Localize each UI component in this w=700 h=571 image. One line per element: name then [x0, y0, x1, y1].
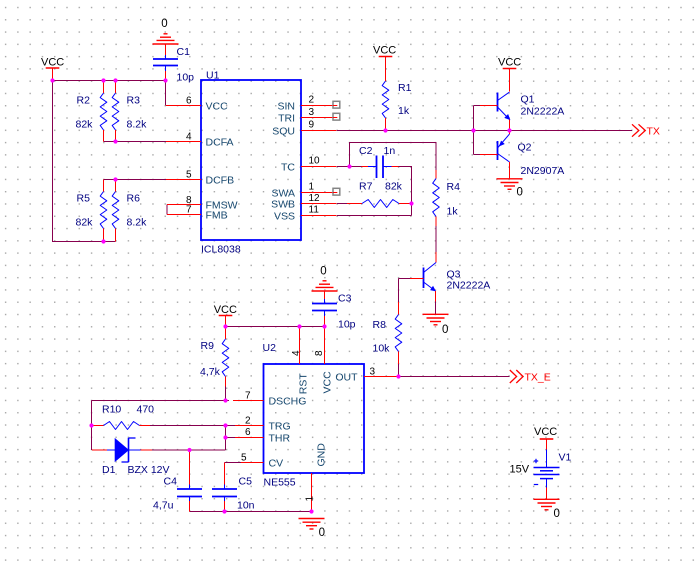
svg-text:1k: 1k: [447, 206, 459, 218]
svg-text:4,7u: 4,7u: [153, 500, 174, 512]
svg-text:R3: R3: [127, 95, 141, 107]
svg-text:GND: GND: [316, 443, 328, 467]
svg-text:15V: 15V: [510, 464, 530, 476]
svg-text:Q1: Q1: [521, 94, 535, 106]
svg-text:10k: 10k: [373, 343, 391, 355]
svg-text:2N2222A: 2N2222A: [521, 106, 565, 118]
svg-text:U1: U1: [206, 70, 220, 82]
svg-text:7: 7: [245, 391, 251, 402]
svg-text:0: 0: [442, 324, 448, 336]
svg-text:D1: D1: [102, 464, 116, 476]
svg-text:C1: C1: [177, 46, 191, 58]
svg-text:3: 3: [309, 107, 315, 118]
svg-text:VCC: VCC: [498, 57, 521, 69]
svg-text:OUT: OUT: [335, 371, 358, 383]
svg-text:TC: TC: [281, 161, 295, 173]
svg-text:8: 8: [314, 350, 325, 356]
svg-text:1: 1: [309, 182, 315, 193]
svg-text:2N2222A: 2N2222A: [447, 280, 491, 292]
svg-text:11: 11: [309, 205, 320, 216]
svg-text:VCC: VCC: [322, 371, 334, 394]
svg-text:0: 0: [554, 508, 560, 520]
svg-text:1n: 1n: [384, 145, 396, 157]
svg-text:C4: C4: [164, 476, 178, 488]
svg-text:R6: R6: [127, 193, 141, 205]
svg-text:82k: 82k: [76, 217, 94, 229]
svg-text:5: 5: [186, 170, 192, 181]
svg-text:C3: C3: [338, 293, 352, 305]
svg-text:BZX 12V: BZX 12V: [128, 464, 170, 476]
svg-text:R7: R7: [359, 181, 373, 193]
svg-text:TRI: TRI: [278, 112, 295, 124]
svg-text:10p: 10p: [177, 72, 195, 84]
svg-text:0: 0: [319, 527, 325, 539]
svg-text:82k: 82k: [385, 181, 403, 193]
svg-text:10p: 10p: [338, 319, 356, 331]
svg-text:4,7k: 4,7k: [200, 366, 221, 378]
svg-text:SWB: SWB: [271, 198, 295, 210]
svg-text:R8: R8: [373, 319, 387, 331]
svg-text:2: 2: [245, 416, 251, 427]
svg-text:SQU: SQU: [272, 125, 295, 137]
svg-text:R1: R1: [398, 82, 412, 94]
svg-text:TX_E: TX_E: [525, 371, 551, 383]
svg-text:FMB: FMB: [206, 209, 228, 221]
svg-text:10n: 10n: [237, 500, 255, 512]
svg-text:8.2k: 8.2k: [127, 217, 148, 229]
svg-text:VCC: VCC: [534, 426, 557, 438]
svg-text:Q2: Q2: [518, 142, 532, 154]
svg-text:VCC: VCC: [41, 57, 64, 69]
svg-text:3: 3: [370, 367, 376, 378]
svg-text:12: 12: [309, 193, 321, 204]
svg-text:8.2k: 8.2k: [127, 119, 148, 131]
svg-text:0: 0: [320, 266, 326, 278]
svg-text:6: 6: [245, 427, 251, 438]
svg-text:82k: 82k: [76, 119, 94, 131]
svg-text:RST: RST: [298, 373, 310, 395]
svg-text:THR: THR: [269, 432, 291, 444]
svg-text:1k: 1k: [398, 105, 410, 117]
svg-text:0: 0: [517, 187, 523, 199]
svg-text:VCC: VCC: [373, 45, 396, 57]
svg-text:TRG: TRG: [269, 420, 291, 432]
svg-text:470: 470: [137, 404, 155, 416]
svg-text:1: 1: [305, 496, 316, 502]
svg-text:SIN: SIN: [277, 100, 295, 112]
svg-text:10: 10: [309, 156, 321, 167]
svg-text:CV: CV: [269, 457, 284, 469]
svg-text:4: 4: [291, 350, 302, 356]
svg-text:VCC: VCC: [214, 304, 237, 316]
svg-text:VSS: VSS: [274, 210, 295, 222]
svg-text:R5: R5: [77, 193, 91, 205]
svg-text:DCFB: DCFB: [206, 174, 235, 186]
svg-text:R10: R10: [102, 404, 121, 416]
svg-text:DCFA: DCFA: [206, 136, 234, 148]
svg-text:R9: R9: [201, 340, 215, 352]
svg-text:4: 4: [186, 132, 192, 143]
svg-text:2N2907A: 2N2907A: [521, 165, 565, 177]
svg-text:DSCHG: DSCHG: [269, 395, 307, 407]
svg-text:C5: C5: [239, 476, 253, 488]
svg-text:R4: R4: [447, 181, 461, 193]
svg-text:NE555: NE555: [264, 477, 296, 489]
svg-text:C2: C2: [359, 145, 373, 157]
svg-text:U2: U2: [263, 342, 277, 354]
svg-text:0: 0: [161, 18, 167, 30]
svg-text:ICL8038: ICL8038: [201, 244, 241, 256]
svg-text:TX: TX: [647, 125, 660, 137]
svg-text:R2: R2: [77, 95, 91, 107]
svg-text:VCC: VCC: [206, 100, 229, 112]
svg-text:V1: V1: [559, 452, 572, 464]
svg-text:6: 6: [186, 96, 192, 107]
svg-text:9: 9: [309, 120, 315, 131]
svg-text:5: 5: [241, 453, 247, 464]
svg-text:2: 2: [309, 95, 315, 106]
svg-text:7: 7: [186, 205, 192, 216]
